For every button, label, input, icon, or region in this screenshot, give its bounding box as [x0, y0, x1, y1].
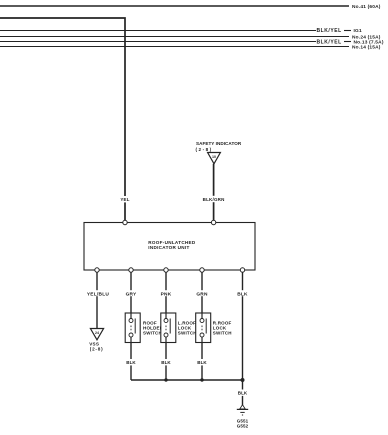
- svg-text:10: 10: [212, 155, 216, 159]
- node L.ROOF LOCK SWITCH label: [178, 321, 197, 336]
- wire ground bus horizontal: [131, 379, 243, 381]
- node G551 G552 label: [237, 418, 249, 428]
- svg-text:No.41 (60A): No.41 (60A): [352, 4, 381, 10]
- wire No.24 (15A) bus: [0, 36, 349, 38]
- svg-text:SAFETY INDICATOR: SAFETY INDICATOR: [196, 141, 242, 146]
- wire from roof holder switch to ground bus: [130, 343, 132, 381]
- wire from L roof lock switch to ground bus: [165, 343, 167, 381]
- node terminal top BLK/GRN: [211, 220, 215, 224]
- svg-text:BLK: BLK: [237, 291, 248, 297]
- wire GRN from unit to R roof lock switch: [201, 272, 203, 319]
- wire YEL/BLU from unit to VSS: [96, 272, 98, 329]
- svg-text:No.14 (15A): No.14 (15A): [352, 44, 381, 50]
- svg-text:GRY: GRY: [126, 291, 137, 297]
- node YEL/BLU wire label: [87, 290, 110, 297]
- node BLK label under roof holder switch: [125, 359, 137, 365]
- svg-text:INDICATOR UNIT: INDICATOR UNIT: [148, 245, 189, 250]
- svg-text:SWITCH: SWITCH: [143, 331, 162, 336]
- wire YEL feed from bus to unit: [0, 18, 125, 221]
- node BLK label under L roof lock switch: [160, 359, 172, 365]
- svg-text:BLK: BLK: [126, 360, 136, 365]
- node junction dot BLK bus: [241, 378, 245, 382]
- wire No.14 (15A) bus: [0, 46, 349, 48]
- svg-text:BLK: BLK: [197, 360, 207, 365]
- node terminal bottom YEL/BLU: [95, 268, 99, 272]
- node terminal bottom PNK: [164, 268, 168, 272]
- node PNK wire label: [161, 290, 172, 297]
- node GRY wire label: [126, 290, 138, 297]
- svg-text:VSS: VSS: [89, 341, 99, 346]
- node IG1 label: [354, 28, 362, 34]
- node terminal bottom BLK: [240, 268, 244, 272]
- svg-text:GRN: GRN: [196, 291, 208, 297]
- ground G551 G552: [237, 405, 248, 415]
- node R.ROOF LOCK SWITCH label: [213, 321, 232, 336]
- node No.41 (60A) label: [352, 4, 381, 10]
- node BLK label under R roof lock switch: [196, 359, 208, 365]
- svg-text:BLK: BLK: [161, 360, 171, 365]
- svg-text:24: 24: [95, 331, 99, 335]
- node junction dot PNK bus: [164, 378, 167, 381]
- svg-text:IG1: IG1: [354, 28, 362, 34]
- svg-text:YEL/BLU: YEL/BLU: [87, 291, 110, 297]
- node No.13 (7.5A) label: [354, 39, 384, 45]
- connector VSS triangle: [90, 329, 103, 340]
- svg-text:G551: G551: [237, 418, 249, 423]
- wire No.41 (60A) bus: [0, 5, 349, 7]
- wire IG1 bus: [0, 30, 351, 32]
- node No.14 (15A) label: [352, 44, 381, 50]
- wire BLK from unit to ground bus: [242, 272, 244, 406]
- node GRN wire label: [196, 290, 208, 297]
- switch S1 roof holder switch: [125, 313, 140, 343]
- svg-text:BLK/YEL: BLK/YEL: [317, 28, 342, 34]
- node BLK wire label upper: [237, 290, 248, 297]
- node terminal bottom GRN: [200, 268, 204, 272]
- wire GRY from unit to roof holder switch: [130, 272, 132, 319]
- node No.24 (15A) label: [352, 34, 381, 40]
- node terminal bottom GRY: [129, 268, 133, 272]
- node BLK wire label lower: [237, 390, 249, 396]
- svg-text:YEL: YEL: [120, 197, 129, 202]
- wire from R roof lock switch to ground bus: [201, 343, 203, 381]
- svg-text:PNK: PNK: [161, 291, 172, 297]
- node terminal top YEL: [123, 220, 127, 224]
- svg-text:BLK/GRN: BLK/GRN: [203, 197, 225, 202]
- node ROOF HOLDER SWITCH label: [143, 321, 164, 336]
- node SAFETY INDICATOR label: [196, 141, 242, 152]
- op-amp U1 ROOF-UNLATCHED INDICATOR UNIT box: [84, 223, 255, 271]
- node junction dot GRN bus: [200, 378, 203, 381]
- node BLK/YEL label on No.13 line: [317, 39, 342, 45]
- svg-text:G552: G552: [237, 424, 249, 429]
- node BLK/YEL label on IG1 line: [317, 28, 342, 34]
- svg-text:(2-8): (2-8): [196, 147, 213, 152]
- wire PNK from unit to L roof lock switch: [165, 272, 167, 319]
- svg-text:BLK/YEL: BLK/YEL: [317, 39, 342, 45]
- node BLK/GRN wire label: [203, 196, 225, 202]
- wire No.13 (7.5A) bus: [0, 41, 351, 43]
- node VSS label: [89, 341, 103, 351]
- node YEL wire label: [120, 196, 131, 202]
- switch S3 R roof lock switch: [196, 313, 211, 343]
- svg-text:SWITCH: SWITCH: [178, 331, 197, 336]
- svg-text:(2-8): (2-8): [90, 347, 104, 352]
- switch S2 L roof lock switch: [161, 313, 176, 343]
- svg-text:BLK: BLK: [238, 391, 248, 396]
- wire BLK/GRN from safety indicator to unit: [213, 164, 215, 221]
- connector safety indicator triangle: [208, 153, 221, 164]
- svg-text:SWITCH: SWITCH: [213, 331, 232, 336]
